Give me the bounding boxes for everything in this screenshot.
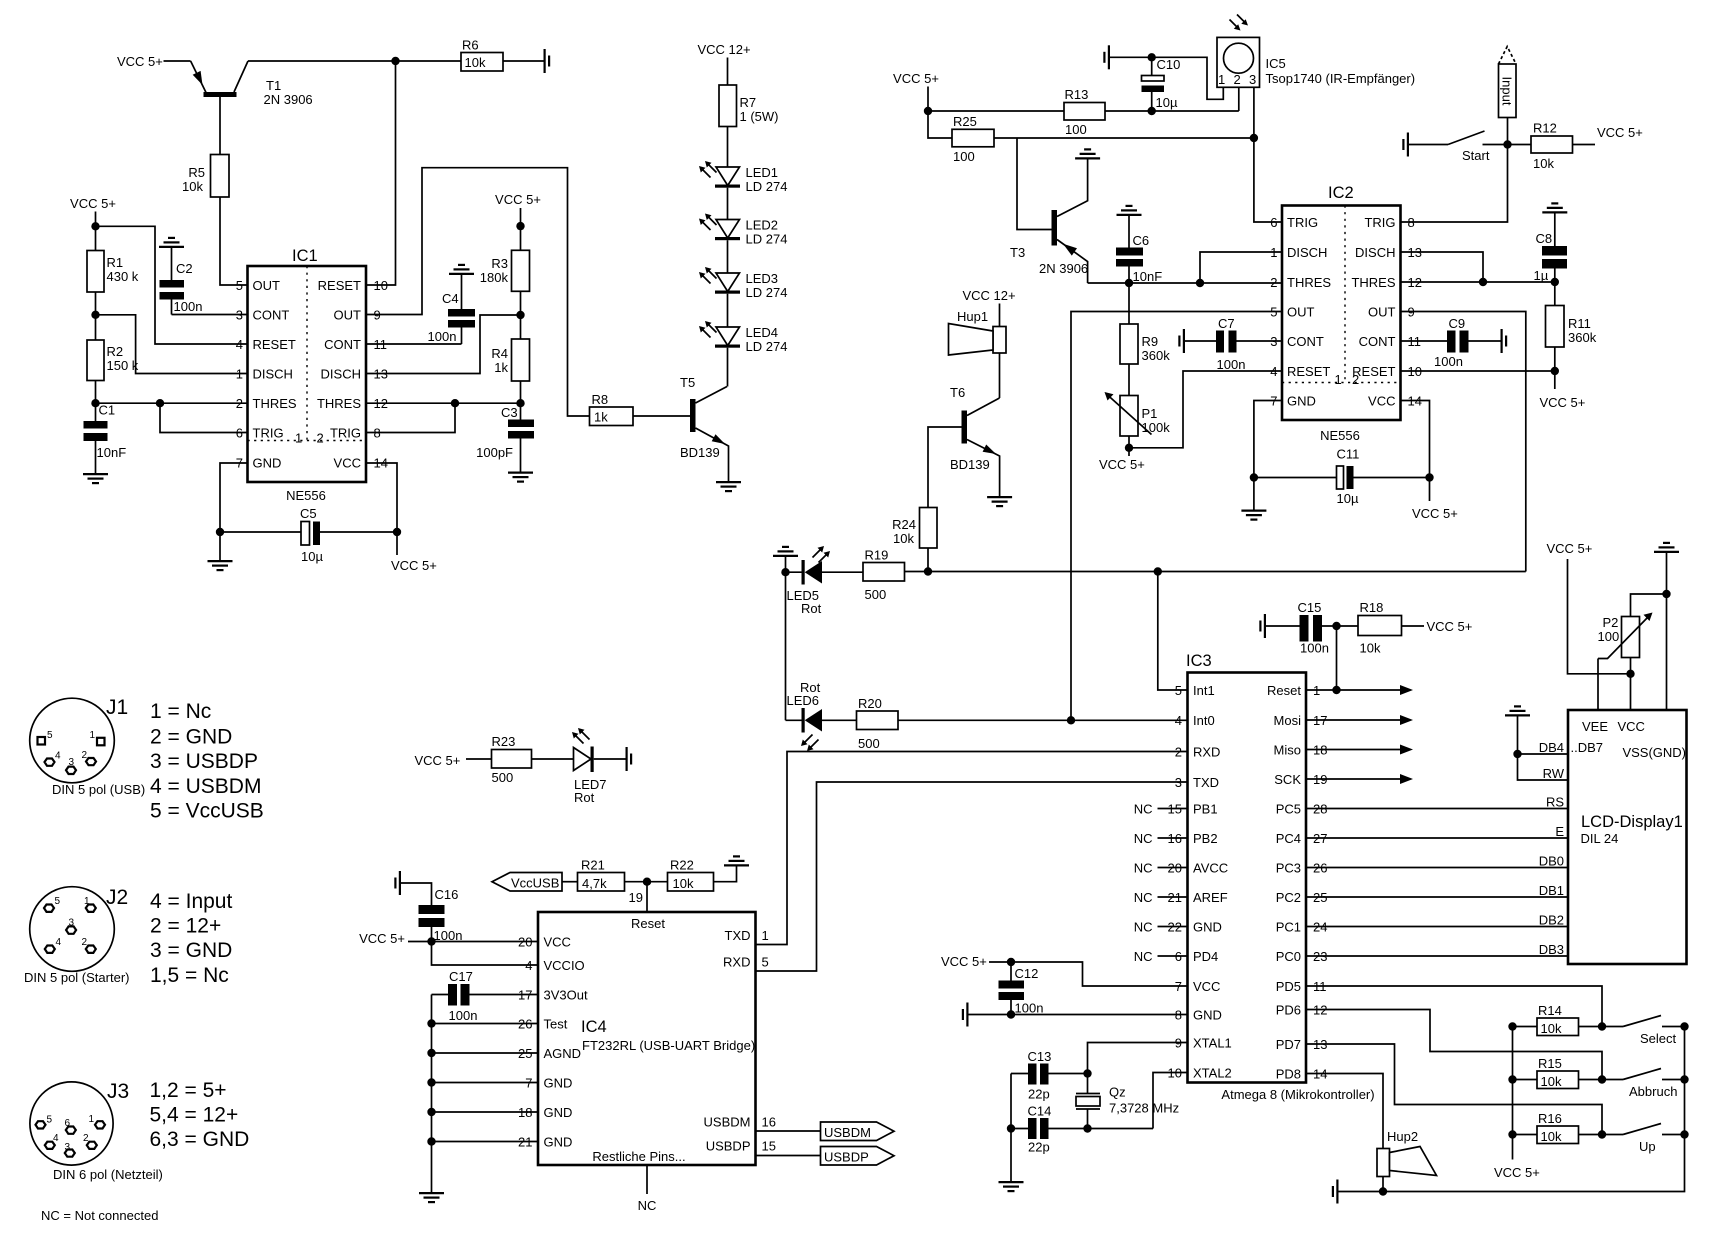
svg-text:OUT: OUT — [253, 278, 281, 293]
node junction C6/R9 — [1125, 279, 1133, 287]
svg-text:C3: C3 — [501, 405, 518, 420]
svg-text:Hup2: Hup2 — [1387, 1129, 1418, 1144]
svg-text:C2: C2 — [176, 261, 193, 276]
wire P1 to RESET4 — [1129, 371, 1282, 448]
switch Up — [1623, 1124, 1685, 1155]
svg-text:VCC 5+: VCC 5+ — [893, 71, 939, 86]
ground (C4, above) — [449, 265, 474, 274]
ground (T6) — [987, 497, 1012, 506]
svg-text:2: 2 — [1234, 72, 1241, 87]
svg-text:4 = Input: 4 = Input — [150, 890, 232, 913]
ground (VSS, above) — [1654, 543, 1679, 552]
svg-text:NC: NC — [1134, 831, 1153, 846]
svg-text:10k: 10k — [1541, 1021, 1562, 1036]
svg-text:LED1: LED1 — [746, 165, 779, 180]
svg-text:VCC 5+: VCC 5+ — [495, 192, 541, 207]
wire to DISCH1 — [96, 315, 248, 374]
wire XTAL1 — [1088, 1043, 1188, 1074]
net label VCC 5+ (R11) — [1554, 371, 1556, 389]
ground (C7, left) — [1179, 329, 1184, 353]
svg-text:150 k: 150 k — [107, 358, 139, 373]
svg-text:C12: C12 — [1015, 966, 1039, 981]
svg-text:Test: Test — [544, 1017, 568, 1032]
svg-text:R8: R8 — [592, 392, 609, 407]
resistor R14 10k — [1513, 1003, 1624, 1036]
wire — [95, 381, 97, 422]
wire THRES12 — [1401, 281, 1555, 283]
svg-text:VCC 5+: VCC 5+ — [1540, 395, 1586, 410]
IC5 Tsop1740 — [1217, 15, 1415, 88]
node junction — [1503, 140, 1511, 148]
svg-text:100n: 100n — [1300, 641, 1329, 656]
svg-text:Start: Start — [1462, 148, 1490, 163]
ground (C16, left) — [395, 871, 400, 895]
svg-text:R16: R16 — [1538, 1111, 1562, 1126]
svg-text:BD139: BD139 — [680, 445, 720, 460]
ground (IC2 GND) — [1241, 511, 1266, 520]
svg-text:Mosi: Mosi — [1274, 713, 1302, 728]
svg-text:500: 500 — [492, 770, 514, 785]
capacitor C14 22p — [1011, 1074, 1153, 1155]
svg-text:430 k: 430 k — [107, 269, 139, 284]
capacitor C3 100pF — [476, 405, 534, 472]
svg-text:USBDM: USBDM — [704, 1115, 751, 1130]
svg-text:4: 4 — [1270, 364, 1277, 379]
svg-text:5: 5 — [55, 896, 61, 907]
capacitor C5 10u — [220, 506, 397, 564]
svg-text:PB2: PB2 — [1193, 831, 1218, 846]
svg-text:100n: 100n — [174, 299, 203, 314]
resistor R8 1k — [590, 392, 634, 426]
svg-text:VCC: VCC — [1368, 394, 1395, 409]
svg-text:R15: R15 — [1538, 1056, 1562, 1071]
wire Miso arrow — [1306, 749, 1405, 751]
svg-text:CONT: CONT — [324, 337, 361, 352]
ground (R22, above) — [714, 867, 737, 882]
svg-text:R2: R2 — [107, 344, 124, 359]
svg-text:AGND: AGND — [544, 1046, 582, 1061]
svg-text:T3: T3 — [1010, 245, 1025, 260]
wire to DISCH13 — [366, 315, 521, 374]
svg-text:22p: 22p — [1028, 1140, 1050, 1155]
svg-text:4 = USBDM: 4 = USBDM — [150, 775, 261, 798]
svg-text:Int0: Int0 — [1193, 713, 1215, 728]
connector flag VccUSB — [492, 873, 578, 892]
svg-text:T5: T5 — [680, 375, 695, 390]
svg-text:NE556: NE556 — [1320, 428, 1360, 443]
svg-text:100n: 100n — [449, 1008, 478, 1023]
svg-text:R1: R1 — [107, 255, 124, 270]
NC PD4 — [1158, 955, 1188, 957]
svg-text:P1: P1 — [1142, 406, 1158, 421]
ground (C9) — [1502, 329, 1507, 353]
wire — [785, 557, 787, 572]
legend J2 — [150, 890, 232, 987]
resistor R25 100 — [952, 114, 994, 164]
wire RXD to IC3 TXD — [756, 782, 1188, 971]
capacitor C11 10u — [1254, 447, 1430, 507]
svg-text:5: 5 — [762, 955, 769, 970]
svg-text:THRES: THRES — [1287, 275, 1331, 290]
wire — [248, 60, 461, 62]
svg-text:1k: 1k — [594, 410, 608, 425]
transistor T3 2N 3906 — [1010, 160, 1088, 284]
svg-text:C10: C10 — [1157, 57, 1181, 72]
ground (C6, above) — [1117, 206, 1142, 215]
resistor R21 4,7k — [578, 858, 625, 892]
wire — [95, 292, 97, 340]
svg-text:3V3Out: 3V3Out — [544, 988, 588, 1003]
capacitor C15 100n — [1266, 600, 1358, 656]
ground (C1) — [83, 474, 108, 483]
transistor T6 BD139 — [950, 385, 1000, 496]
wire R25 to IC5 pin3 — [994, 137, 1254, 139]
wire TRIG6 — [160, 403, 248, 432]
svg-text:5: 5 — [236, 278, 243, 293]
legend J3 — [150, 1079, 250, 1151]
svg-text:PC2: PC2 — [1276, 890, 1301, 905]
svg-text:VEE: VEE — [1582, 719, 1608, 734]
wire VCC7 — [989, 962, 1188, 986]
svg-text:100: 100 — [1598, 629, 1620, 644]
svg-text:SCK: SCK — [1274, 772, 1301, 787]
capacitor C16 100n — [401, 883, 462, 943]
svg-text:PC3: PC3 — [1276, 861, 1301, 876]
svg-text:2: 2 — [82, 750, 88, 761]
svg-text:LED6: LED6 — [787, 693, 820, 708]
svg-text:VCC: VCC — [1193, 979, 1220, 994]
svg-text:GND: GND — [544, 1105, 573, 1120]
svg-text:2N 3906: 2N 3906 — [264, 92, 313, 107]
svg-text:10µ: 10µ — [301, 549, 323, 564]
LED1 LD274 — [699, 161, 787, 194]
wire GND7 to ground/C5 — [220, 463, 248, 532]
svg-text:VCC: VCC — [334, 456, 361, 471]
svg-text:R20: R20 — [858, 696, 882, 711]
potentiometer P1 100k — [1105, 364, 1171, 456]
wire VCCIO — [432, 942, 539, 966]
node junction — [1250, 134, 1258, 142]
svg-text:DIN 5 pol (USB): DIN 5 pol (USB) — [52, 782, 145, 797]
svg-text:VCC 12+: VCC 12+ — [697, 42, 750, 57]
svg-text:VccUSB: VccUSB — [511, 876, 559, 891]
wire — [366, 61, 396, 285]
svg-text:USBDP: USBDP — [706, 1139, 751, 1154]
svg-text:100n: 100n — [1015, 1001, 1044, 1016]
resistor R23 500 — [492, 734, 532, 785]
ground (DB4, above) — [1505, 706, 1530, 715]
node junction — [924, 107, 932, 115]
svg-text:10k: 10k — [1541, 1129, 1562, 1144]
svg-text:10k: 10k — [673, 876, 694, 891]
wire — [220, 197, 248, 285]
svg-text:10nF: 10nF — [97, 445, 127, 460]
LED3 LD274 — [699, 267, 787, 300]
wire VCC14 — [366, 463, 397, 532]
svg-text:FT232RL (USB-UART Bridge): FT232RL (USB-UART Bridge) — [582, 1038, 755, 1053]
svg-text:1: 1 — [90, 730, 96, 741]
svg-text:2: 2 — [236, 396, 243, 411]
svg-text:19: 19 — [629, 890, 643, 905]
svg-text:AVCC: AVCC — [1193, 861, 1228, 876]
node junction R3/R4 — [516, 311, 524, 319]
wire DISCH1 — [1200, 252, 1282, 283]
resistor R4 1k — [491, 339, 529, 381]
svg-text:Up: Up — [1639, 1139, 1656, 1154]
svg-text:3 = USBDP: 3 = USBDP — [150, 750, 258, 773]
svg-text:IC2: IC2 — [1328, 184, 1354, 202]
svg-text:Hup1: Hup1 — [957, 309, 988, 324]
svg-text:NC: NC — [1134, 802, 1153, 817]
svg-text:C8: C8 — [1536, 231, 1553, 246]
wire — [95, 212, 97, 251]
wire R13 to IC5 pin2 — [1105, 87, 1239, 111]
svg-text:Int1: Int1 — [1193, 683, 1215, 698]
svg-text:1: 1 — [1270, 245, 1277, 260]
wire T3 base — [1017, 138, 1052, 230]
ground (C15) — [1260, 614, 1265, 638]
svg-text:6: 6 — [236, 426, 243, 441]
svg-text:R4: R4 — [491, 346, 508, 361]
svg-text:2 = 12+: 2 = 12+ — [150, 915, 221, 938]
svg-text:Miso: Miso — [1274, 743, 1301, 758]
wire to RESET4 — [96, 226, 248, 344]
svg-text:10µ: 10µ — [1337, 491, 1359, 506]
resistor R13 100 — [1064, 87, 1105, 137]
LED4 LD274 — [699, 321, 787, 354]
svg-text:TXD: TXD — [1193, 775, 1219, 790]
wire GND18 — [432, 1111, 539, 1113]
node junction — [391, 57, 399, 65]
wire VEE — [1597, 659, 1599, 711]
wire GND21 — [432, 1141, 539, 1143]
ground (C3) — [508, 473, 533, 482]
svg-text:5 = VccUSB: 5 = VccUSB — [150, 800, 264, 823]
svg-text:VSS(GND): VSS(GND) — [1622, 745, 1686, 760]
wire VCC20 — [408, 941, 538, 943]
svg-text:T1: T1 — [266, 78, 281, 93]
wire R18 to Reset — [1336, 626, 1338, 690]
svg-text:NE556: NE556 — [286, 488, 326, 503]
svg-text:R19: R19 — [865, 548, 889, 563]
svg-text:1: 1 — [295, 431, 302, 446]
wire XTAL2 — [1153, 1073, 1188, 1129]
wire — [727, 127, 729, 168]
node junction DISCH1 tie — [1196, 279, 1204, 287]
svg-text:10k: 10k — [893, 531, 914, 546]
ground (C13/C14) — [1010, 1129, 1012, 1182]
svg-text:PB1: PB1 — [1193, 802, 1218, 817]
svg-text:LED3: LED3 — [746, 271, 779, 286]
svg-text:VCCIO: VCCIO — [544, 958, 585, 973]
svg-text:VCC 5+: VCC 5+ — [1412, 506, 1458, 521]
wire SCK arrow — [1306, 778, 1405, 780]
resistor R2 150k — [87, 340, 139, 381]
svg-text:NC: NC — [638, 1198, 657, 1213]
svg-text:VCC 5+: VCC 5+ — [391, 558, 437, 573]
svg-text:Atmega 8 (Mikrokontroller): Atmega 8 (Mikrokontroller) — [1221, 1087, 1374, 1102]
svg-text:VCC 5+: VCC 5+ — [415, 753, 461, 768]
ground (IC1 GND) — [208, 561, 233, 570]
svg-text:C16: C16 — [435, 887, 459, 902]
resistor R1 430k — [87, 251, 139, 293]
svg-text:VCC 5+: VCC 5+ — [1494, 1165, 1540, 1180]
svg-text:J2: J2 — [106, 886, 128, 909]
NC PB1 — [1158, 808, 1188, 810]
wire RESET10 — [1401, 370, 1555, 372]
net label VCC 5+ (R14 rail) — [1512, 1027, 1514, 1160]
svg-text:TRIG: TRIG — [253, 426, 284, 441]
ground (C2, above) — [159, 238, 184, 247]
svg-text:DIL 24: DIL 24 — [1581, 831, 1619, 846]
svg-text:RW: RW — [1543, 766, 1565, 781]
svg-text:RESET: RESET — [318, 278, 361, 293]
svg-text:10k: 10k — [465, 55, 486, 70]
NC GND22 — [1158, 926, 1188, 928]
connector flag USBDM — [756, 1130, 821, 1132]
svg-text:TRIG: TRIG — [1287, 215, 1318, 230]
wire — [532, 758, 574, 760]
svg-text:10k: 10k — [1533, 156, 1554, 171]
wire — [633, 415, 690, 417]
svg-text:1: 1 — [1218, 72, 1225, 87]
svg-text:4,7k: 4,7k — [582, 876, 607, 891]
svg-text:VCC: VCC — [1618, 719, 1645, 734]
wire C17/Test/AGND/GND ladder — [431, 995, 433, 1193]
ground (T3 collector, above) — [1075, 149, 1100, 158]
svg-text:NC: NC — [1134, 949, 1153, 964]
svg-text:IC3: IC3 — [1186, 652, 1212, 670]
svg-text:R3: R3 — [491, 256, 508, 271]
wire Int1 vertical — [1158, 572, 1188, 691]
svg-text:CONT: CONT — [1359, 334, 1396, 349]
ground (T5) — [716, 482, 741, 491]
speaker Hup1 — [949, 304, 1007, 399]
svg-text:RESET: RESET — [1352, 364, 1395, 379]
svg-text:2: 2 — [1270, 275, 1277, 290]
svg-text:R7: R7 — [740, 95, 757, 110]
wire OUT9 to R8 — [366, 168, 590, 416]
svg-text:LCD-Display1: LCD-Display1 — [1581, 813, 1683, 831]
ground (C10) — [1104, 45, 1109, 69]
potentiometer P2 100 — [1598, 594, 1667, 674]
svg-text:100: 100 — [1065, 122, 1087, 137]
svg-text:VCC 12+: VCC 12+ — [962, 288, 1015, 303]
node junction THRES — [91, 399, 99, 407]
svg-text:THRES: THRES — [1351, 275, 1395, 290]
svg-text:3: 3 — [65, 1142, 71, 1153]
ground (Start switch) — [1403, 133, 1408, 157]
resistor R6 — [461, 38, 503, 72]
crystal Qz 7,3728 MHz — [1076, 1074, 1179, 1129]
resistor R18 10k — [1358, 600, 1424, 656]
wire VCC to LCD VCC — [1568, 559, 1631, 710]
capacitor C4 100n — [428, 275, 476, 344]
wire PD7 — [1306, 1044, 1602, 1135]
svg-text:Restliche Pins...: Restliche Pins... — [592, 1149, 685, 1164]
wire — [164, 60, 191, 62]
ground (switch rail) — [1333, 1180, 1338, 1204]
svg-text:CONT: CONT — [1287, 334, 1324, 349]
resistor R15 10k — [1513, 1056, 1624, 1089]
svg-text:DB3: DB3 — [1539, 942, 1564, 957]
wire TRIG8 — [366, 403, 455, 432]
svg-text:1: 1 — [89, 1114, 95, 1125]
svg-text:10k: 10k — [182, 179, 203, 194]
svg-text:10µ: 10µ — [1156, 95, 1178, 110]
capacitor C13 22p — [1011, 1049, 1088, 1102]
connector J3 DIN 6 pol (Netzteil) — [30, 1080, 163, 1182]
svg-text:RXD: RXD — [723, 955, 750, 970]
svg-text:GND: GND — [544, 1076, 573, 1091]
wire — [727, 240, 729, 273]
svg-text:C17: C17 — [449, 969, 473, 984]
svg-text:Rot: Rot — [801, 601, 822, 616]
svg-text:2: 2 — [82, 937, 88, 948]
svg-text:GND: GND — [1287, 394, 1316, 409]
svg-text:2: 2 — [317, 431, 324, 446]
node junction — [1148, 107, 1156, 115]
svg-text:Tsop1740 (IR-Empfänger): Tsop1740 (IR-Empfänger) — [1266, 71, 1416, 86]
LED5 Rot — [786, 546, 864, 616]
wire THRES2 — [96, 402, 248, 404]
node junction pin19 — [625, 881, 668, 883]
node junction — [451, 399, 459, 407]
node junction — [1148, 53, 1156, 61]
svg-text:3: 3 — [236, 308, 243, 323]
svg-text:1µ: 1µ — [1534, 268, 1549, 283]
wire DISCH13 tie — [1401, 252, 1484, 282]
wire VCC14 — [1401, 401, 1430, 478]
LED7 Rot — [572, 728, 626, 805]
svg-text:4: 4 — [1175, 713, 1182, 728]
svg-text:100n: 100n — [1434, 354, 1463, 369]
svg-text:C14: C14 — [1028, 1104, 1052, 1119]
svg-text:GND: GND — [1193, 920, 1222, 935]
LED2 LD274 — [699, 214, 787, 247]
svg-text:R23: R23 — [492, 734, 516, 749]
svg-text:NC: NC — [1134, 920, 1153, 935]
svg-text:2: 2 — [83, 1133, 89, 1144]
svg-text:VCC 5+: VCC 5+ — [359, 931, 405, 946]
NC AREF — [1158, 896, 1188, 898]
svg-text:Select: Select — [1640, 1031, 1677, 1046]
svg-text:1,5 = Nc: 1,5 = Nc — [150, 964, 229, 987]
wire AGND — [432, 1052, 539, 1054]
ground (LED7) — [627, 747, 632, 771]
wire T6 base to R24 — [928, 427, 962, 508]
svg-text:C15: C15 — [1298, 600, 1322, 615]
svg-text:IC5: IC5 — [1266, 56, 1286, 71]
wire Reset19 — [646, 882, 648, 912]
wire VSS — [1666, 553, 1668, 710]
svg-text:PC4: PC4 — [1276, 831, 1301, 846]
svg-text:1: 1 — [762, 928, 769, 943]
wire LED5 to LED6 — [785, 572, 787, 720]
svg-text:R5: R5 — [188, 165, 205, 180]
wire IC5 pin1 to ground — [1110, 57, 1223, 99]
ground (right of R6) — [545, 49, 550, 73]
wire PD6 — [1306, 1010, 1602, 1080]
svg-text:DISCH: DISCH — [253, 367, 293, 382]
svg-text:C13: C13 — [1028, 1049, 1052, 1064]
svg-text:Rot: Rot — [574, 790, 595, 805]
svg-text:5: 5 — [47, 1115, 53, 1126]
svg-text:C5: C5 — [300, 506, 317, 521]
svg-text:C4: C4 — [442, 291, 459, 306]
svg-text:3: 3 — [69, 757, 75, 768]
wire — [520, 381, 522, 420]
